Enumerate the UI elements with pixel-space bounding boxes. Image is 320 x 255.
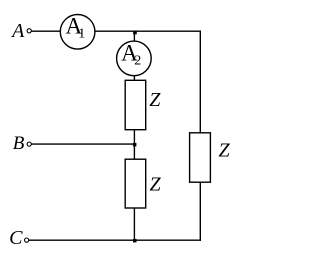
junction: node C (133, 239, 137, 243)
impedance Z3 (190, 133, 211, 182)
terminal A (27, 29, 31, 33)
wire: junction to ammeter A2 (133, 32, 135, 41)
svg-text:B: B (13, 133, 25, 154)
terminal C (25, 238, 29, 242)
wire: impedance Z2 to bottom wire (133, 208, 135, 240)
wire: terminal A to ammeter A1 (32, 30, 61, 32)
svg-text:Z: Z (149, 89, 161, 111)
svg-text:Z: Z (149, 173, 161, 195)
junction: node B (133, 143, 137, 147)
svg-text:Z: Z (218, 140, 230, 162)
wire: right branch top segment (199, 31, 201, 133)
svg-text:1: 1 (78, 26, 85, 41)
wire: ammeter A2 to impedance Z1 (133, 76, 135, 81)
wire: terminal C to bottom-right corner (29, 239, 201, 241)
junction: top node (A2 tap) (133, 31, 137, 35)
wire: ammeter A1 to top-right corner (95, 30, 201, 32)
wire: terminal B to middle branch (32, 143, 135, 145)
impedance Z1 (125, 80, 146, 129)
terminal B (27, 142, 31, 146)
svg-text:2: 2 (134, 54, 141, 69)
svg-text:A: A (10, 20, 25, 42)
impedance Z2 (125, 159, 146, 208)
svg-text:C: C (9, 227, 23, 249)
ammeter A2 (117, 41, 152, 76)
wire: right branch bottom segment (199, 182, 201, 241)
wire: impedance Z1 to node B junction to impedance Z2 (133, 130, 135, 160)
ammeter A1 (60, 14, 95, 50)
